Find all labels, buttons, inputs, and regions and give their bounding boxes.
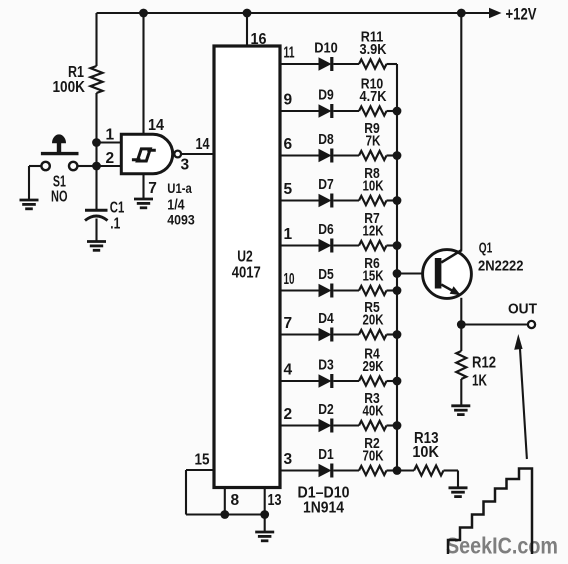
svg-text:9: 9 bbox=[284, 92, 293, 109]
svg-text:D10: D10 bbox=[314, 40, 338, 57]
svg-text:1: 1 bbox=[284, 226, 293, 243]
svg-text:R12: R12 bbox=[472, 355, 496, 372]
svg-text:D5: D5 bbox=[318, 266, 334, 283]
svg-text:1N914: 1N914 bbox=[303, 500, 344, 517]
svg-text:2: 2 bbox=[106, 150, 115, 167]
svg-text:15K: 15K bbox=[363, 268, 384, 285]
svg-text:14: 14 bbox=[148, 117, 164, 134]
svg-text:D8: D8 bbox=[318, 131, 334, 148]
svg-text:7: 7 bbox=[148, 180, 157, 197]
svg-text:6: 6 bbox=[284, 136, 293, 153]
svg-text:7: 7 bbox=[284, 315, 293, 332]
svg-text:20K: 20K bbox=[363, 312, 384, 329]
svg-text:D2: D2 bbox=[318, 401, 334, 418]
svg-text:12K: 12K bbox=[363, 223, 384, 240]
svg-text:U2: U2 bbox=[237, 249, 253, 266]
svg-text:3: 3 bbox=[284, 451, 293, 468]
svg-text:D1: D1 bbox=[318, 446, 334, 463]
svg-text:70K: 70K bbox=[363, 448, 384, 465]
svg-text:D3: D3 bbox=[318, 357, 334, 374]
svg-text:3: 3 bbox=[181, 156, 190, 173]
svg-text:4.7K: 4.7K bbox=[360, 88, 387, 105]
svg-text:D6: D6 bbox=[318, 221, 334, 238]
svg-text:16: 16 bbox=[251, 31, 267, 48]
svg-text:10: 10 bbox=[284, 271, 295, 288]
svg-text:5: 5 bbox=[284, 181, 293, 198]
svg-text:C1: C1 bbox=[110, 200, 125, 217]
svg-text:11: 11 bbox=[284, 45, 295, 62]
svg-text:1K: 1K bbox=[472, 373, 488, 390]
svg-text:+12V: +12V bbox=[506, 5, 538, 24]
svg-text:SeekIC.com: SeekIC.com bbox=[446, 533, 558, 559]
svg-text:OUT: OUT bbox=[508, 302, 537, 318]
svg-text:14: 14 bbox=[196, 136, 210, 153]
svg-text:D7: D7 bbox=[318, 176, 334, 193]
svg-text:D9: D9 bbox=[318, 87, 334, 104]
svg-text:8: 8 bbox=[231, 492, 240, 509]
svg-text:29K: 29K bbox=[363, 358, 384, 375]
svg-text:13: 13 bbox=[268, 492, 282, 509]
svg-text:NO: NO bbox=[51, 188, 68, 205]
svg-text:U1-a: U1-a bbox=[167, 181, 192, 196]
svg-text:40K: 40K bbox=[363, 403, 384, 420]
svg-text:4: 4 bbox=[284, 362, 293, 379]
svg-text:Q1: Q1 bbox=[479, 240, 493, 256]
svg-text:15: 15 bbox=[195, 452, 210, 469]
svg-text:3.9K: 3.9K bbox=[360, 41, 387, 58]
svg-text:1: 1 bbox=[106, 127, 115, 144]
svg-text:10K: 10K bbox=[412, 444, 439, 461]
svg-text:10K: 10K bbox=[363, 178, 384, 195]
svg-text:4093: 4093 bbox=[167, 211, 195, 227]
svg-text:.1: .1 bbox=[110, 216, 120, 233]
svg-text:4017: 4017 bbox=[232, 265, 261, 282]
svg-text:100K: 100K bbox=[53, 79, 86, 96]
svg-text:2N2222: 2N2222 bbox=[478, 258, 524, 275]
svg-text:D4: D4 bbox=[318, 310, 334, 327]
svg-text:2: 2 bbox=[284, 406, 293, 423]
svg-text:7K: 7K bbox=[366, 133, 381, 150]
